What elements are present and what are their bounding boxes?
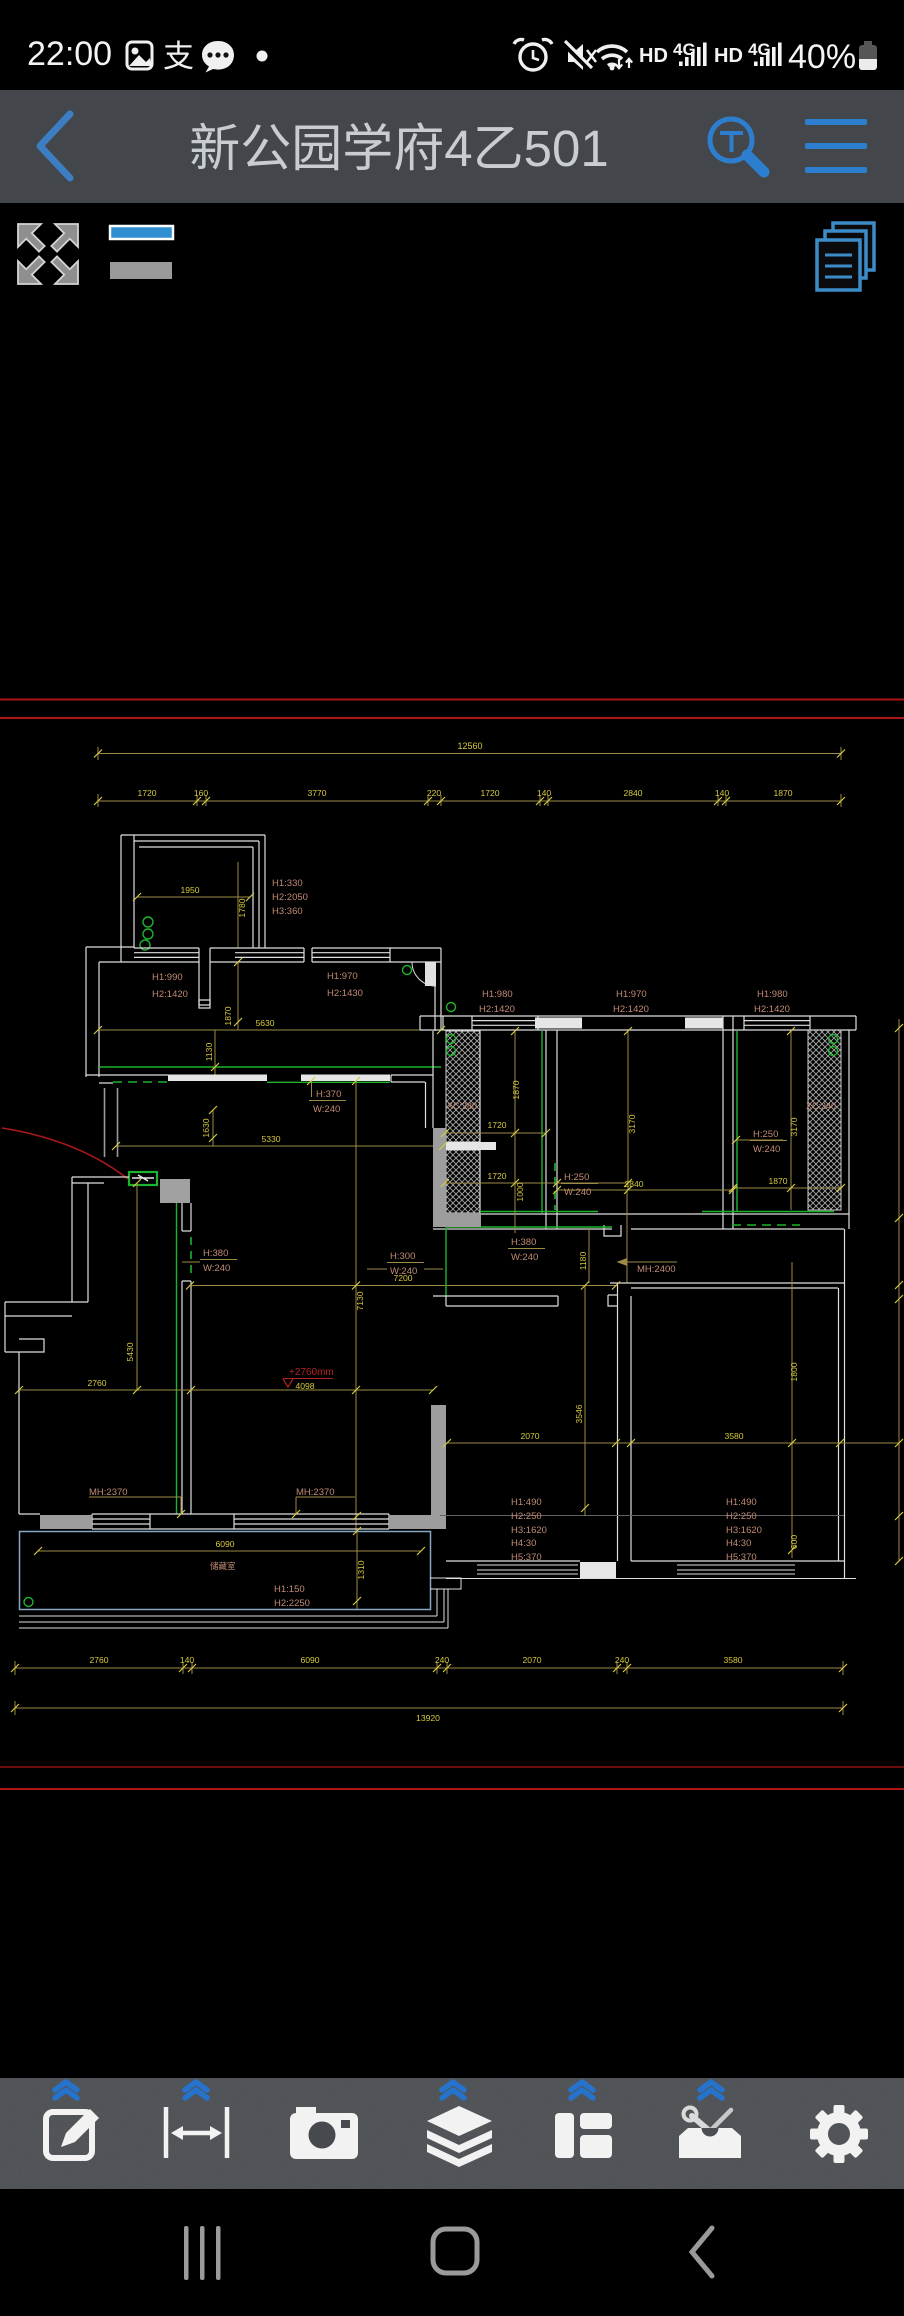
svg-text:40%: 40%: [788, 38, 856, 76]
svg-text:140: 140: [537, 788, 552, 798]
spec text block left: [511, 1497, 547, 1563]
svg-text:H2:2250: H2:2250: [274, 1598, 310, 1609]
dim 7200 line: [190, 1285, 616, 1287]
svg-text:H:380: H:380: [511, 1237, 536, 1248]
gallery icon: [127, 42, 152, 69]
svg-text:H:250: H:250: [564, 1172, 589, 1183]
android navigation bar: [0, 2189, 904, 2316]
back chevron: [0, 90, 904, 203]
wifi: [597, 46, 627, 52]
red layout rule top A: [0, 699, 904, 701]
svg-text:HD: HD: [639, 45, 668, 67]
layer bar blue: [110, 226, 173, 239]
svg-text:W:240: W:240: [753, 1144, 780, 1155]
svg-text:H2:1420: H2:1420: [152, 989, 188, 1000]
svg-text:1310: 1310: [356, 1560, 366, 1579]
svg-text:H2:1430: H2:1430: [327, 988, 363, 999]
svg-text:140: 140: [715, 788, 730, 798]
green circle door: [403, 966, 412, 975]
living room wall with door gap: [182, 1203, 191, 1514]
svg-text:3546: 3546: [574, 1404, 584, 1423]
back button: [692, 2228, 712, 2276]
svg-text:H3:1620: H3:1620: [726, 1525, 762, 1536]
red door swing arc: [2, 1128, 128, 1179]
edit icon: [46, 2112, 92, 2158]
dimension segment labels: [137, 788, 792, 798]
dim 1870 vertical: [237, 962, 239, 1030]
dim 5330: [116, 1145, 443, 1147]
svg-text:H1:150: H1:150: [274, 1584, 305, 1595]
svg-text:W:240: W:240: [313, 1104, 340, 1115]
svg-text:1720: 1720: [487, 1171, 506, 1181]
svg-text:储藏室: 储藏室: [210, 1561, 236, 1571]
svg-text:W:240: W:240: [203, 1263, 230, 1274]
svg-text:H2:1420: H2:1420: [479, 1004, 515, 1015]
svg-text:2840: 2840: [623, 788, 642, 798]
svg-text:2760: 2760: [89, 1655, 108, 1665]
dim verticals lower right: [584, 1285, 586, 1516]
svg-text:1630: 1630: [201, 1118, 211, 1137]
long vertical dim line: [355, 1081, 357, 1531]
svg-text:H:300: H:300: [390, 1251, 415, 1262]
svg-text:13920: 13920: [416, 1713, 440, 1723]
svg-text:H1:980: H1:980: [757, 989, 788, 1000]
svg-text:H5:370: H5:370: [726, 1552, 757, 1563]
svg-text:7130: 7130: [355, 1291, 365, 1310]
gray level line: [420, 1515, 844, 1517]
green accents right block: [446, 1031, 834, 1296]
svg-text:5330: 5330: [261, 1134, 280, 1144]
svg-text:H2:250: H2:250: [726, 1511, 757, 1522]
green dashed door: [190, 1237, 192, 1277]
svg-text:3170: 3170: [789, 1117, 799, 1136]
svg-text:HD: HD: [714, 45, 743, 67]
labels top right rooms: [479, 989, 790, 1015]
dimension chain total 12560: [98, 747, 841, 807]
layers icon: [427, 2106, 492, 2136]
hatched window column right: [808, 1030, 841, 1210]
menu hamburger: [805, 119, 867, 125]
dim 2760 / 4098 line: [19, 1389, 433, 1391]
svg-text:140: 140: [180, 1655, 195, 1665]
svg-text:2070: 2070: [520, 1431, 539, 1441]
red layout rule bottom B: [0, 1788, 904, 1790]
window filled bars: [535, 1018, 582, 1029]
svg-text:5430: 5430: [125, 1342, 135, 1361]
svg-text:H1:490: H1:490: [726, 1497, 757, 1508]
svg-text:1870: 1870: [223, 1006, 233, 1025]
status right icons: [500, 0, 904, 90]
svg-text:MH:2370: MH:2370: [89, 1487, 128, 1498]
measure icon: [166, 2107, 227, 2158]
title text: [0, 107, 798, 181]
dim 1630 vertical: [212, 1110, 214, 1146]
svg-text:H2:1420: H2:1420: [754, 1004, 790, 1015]
CAD drawing canvas: [0, 305, 904, 2078]
home button: [433, 2229, 477, 2273]
entry wall: [5, 1177, 129, 1514]
svg-text:W:240: W:240: [511, 1252, 538, 1263]
svg-text:H:370: H:370: [316, 1089, 341, 1100]
toolbox icon: [692, 2116, 726, 2145]
yellow dim ticks: [11, 750, 903, 1713]
svg-text:160: 160: [194, 788, 209, 798]
entry column gray: [160, 1179, 190, 1203]
layout icon: [555, 2113, 574, 2158]
message bubble: [202, 41, 234, 73]
gray blocks band: [40, 1515, 92, 1529]
layer bar gray: [110, 262, 172, 279]
svg-text:W:240: W:240: [564, 1187, 591, 1198]
svg-text:1870: 1870: [511, 1080, 521, 1099]
svg-text:1800: 1800: [789, 1362, 799, 1381]
lower wall band left block: [86, 1031, 433, 1128]
svg-text:MH:2370: MH:2370: [296, 1487, 335, 1498]
svg-text:W:240: W:240: [390, 1266, 417, 1277]
entry threshold green box: [129, 1172, 157, 1185]
svg-text:H4:30: H4:30: [511, 1538, 536, 1549]
svg-text:600: 600: [789, 1535, 799, 1550]
gray L column entry: [433, 1128, 446, 1227]
svg-text:2760: 2760: [87, 1378, 106, 1388]
svg-text:H1:330: H1:330: [272, 878, 303, 889]
svg-text:3770: 3770: [307, 788, 326, 798]
entry door frame gray: [105, 1088, 118, 1157]
svg-text:240: 240: [615, 1655, 630, 1665]
right edge dim line: [898, 1019, 900, 1561]
svg-text:H1:980: H1:980: [482, 989, 513, 1000]
secondary toolbar: [0, 203, 904, 305]
balcony green circle: [24, 1598, 33, 1607]
svg-text:H:250: H:250: [753, 1129, 778, 1140]
green line kitchen: [267, 1081, 390, 1083]
svg-text:1780: 1780: [237, 898, 247, 917]
status time 22:00: [27, 35, 112, 74]
room labels left block: [152, 971, 363, 1000]
green wall line: [176, 1203, 178, 1514]
balcony green circles: [140, 917, 153, 950]
svg-text:4098: 4098: [295, 1381, 314, 1391]
label H1:330 H2:2050 H3:360: [272, 878, 308, 917]
balcony dim 1780 vertical: [237, 862, 239, 948]
bottom dim chain: [15, 1661, 843, 1715]
spec text block right: [726, 1497, 762, 1563]
dim 5430 vertical: [136, 1183, 138, 1390]
right block top wall band: [420, 1016, 856, 1030]
dim 1130 vertical: [214, 1030, 216, 1075]
red layout rule top B: [0, 717, 904, 719]
green dashed segment: [113, 1081, 168, 1083]
green sill line: [99, 1066, 441, 1068]
recent apps III: [184, 2226, 221, 2280]
svg-text:支: 支: [163, 39, 194, 74]
svg-text:1720: 1720: [480, 788, 499, 798]
svg-text:6090: 6090: [215, 1539, 234, 1549]
title bar: [0, 90, 904, 203]
notification dot: [257, 51, 268, 62]
dim 5630: [98, 1029, 441, 1031]
storage balcony blue outline: [20, 1532, 431, 1610]
svg-text:220: 220: [427, 788, 442, 798]
svg-text:H4:30: H4:30: [726, 1538, 751, 1549]
balcony top-left walls: [121, 835, 265, 962]
balcony lower edge lines: [19, 1578, 461, 1628]
top wall band with windows: [86, 947, 441, 1077]
sliding door white bars: [168, 1075, 267, 1082]
svg-text:1950: 1950: [180, 885, 199, 895]
svg-text:12560: 12560: [457, 741, 482, 751]
interior door leaf: [199, 1000, 210, 1008]
balcony dim 1950: [137, 896, 250, 898]
svg-text:6090: 6090: [300, 1655, 319, 1665]
bottom windows right block: [446, 1565, 856, 1579]
muted speaker: [568, 44, 583, 70]
dim 1180 vertical: [588, 1229, 590, 1283]
svg-text:H2:250: H2:250: [511, 1511, 542, 1522]
right block interior walls: [433, 1016, 849, 1236]
blue chevrons: [55, 2082, 722, 2098]
svg-text:1720: 1720: [137, 788, 156, 798]
svg-text:1720: 1720: [487, 1120, 506, 1130]
bottom wall band left block: [19, 1514, 389, 1529]
svg-text:1870: 1870: [773, 788, 792, 798]
svg-text:H1:970: H1:970: [616, 989, 647, 1000]
svg-text:H3:360: H3:360: [272, 906, 303, 917]
svg-text:3170: 3170: [627, 1114, 637, 1133]
search icon with T: [710, 119, 752, 161]
balcony dim 6090: [38, 1550, 421, 1552]
bottom toolbar: [0, 2078, 904, 2189]
toolbar noise texture: [0, 0, 1, 1]
svg-text:240: 240: [435, 1655, 450, 1665]
battery icon: [864, 41, 872, 46]
svg-text:H2:2050: H2:2050: [272, 892, 308, 903]
svg-text:2070: 2070: [522, 1655, 541, 1665]
svg-text:H1:990: H1:990: [152, 972, 183, 983]
svg-text:3580: 3580: [724, 1431, 743, 1441]
svg-text:MH:2400: MH:2400: [637, 1264, 676, 1275]
expand arrows icon: [18, 224, 78, 284]
alarm clock: [520, 44, 546, 70]
svg-text:H1:970: H1:970: [327, 971, 358, 982]
svg-text:1870: 1870: [768, 1176, 787, 1186]
green circles hatch left: [447, 1003, 456, 1012]
svg-text:1180: 1180: [578, 1252, 588, 1271]
camera icon: [296, 2107, 316, 2115]
bath and bedroom walls lower right: [433, 1229, 845, 1578]
status bar: [0, 0, 904, 90]
svg-text:XC:240: XC:240: [806, 1101, 836, 1111]
svg-text:3580: 3580: [723, 1655, 742, 1665]
svg-text:5630: 5630: [255, 1018, 274, 1028]
balcony dim 1310 vertical: [356, 1531, 358, 1609]
svg-text:XC:280: XC:280: [447, 1101, 477, 1111]
svg-text:H:380: H:380: [203, 1248, 228, 1259]
pages icon: [817, 223, 874, 290]
svg-text:H3:1620: H3:1620: [511, 1525, 547, 1536]
gray shaft wall: [431, 1405, 446, 1529]
door swing square top right room: [425, 962, 436, 986]
svg-text:H2:1420: H2:1420: [613, 1004, 649, 1015]
dim 2070 3580 line: [447, 1442, 899, 1444]
wall divider white bar: [446, 1142, 496, 1150]
dims right block upper: [445, 1031, 841, 1233]
status left icons: [0, 0, 300, 90]
svg-text:1130: 1130: [204, 1043, 214, 1062]
svg-text:H5:370: H5:370: [511, 1552, 542, 1563]
svg-text:+2760mm: +2760mm: [289, 1367, 334, 1378]
svg-text:H1:490: H1:490: [511, 1497, 542, 1508]
settings gear: [798, 2093, 880, 2175]
svg-text:1000: 1000: [515, 1182, 525, 1201]
red layout rule bottom A: [0, 1766, 904, 1768]
